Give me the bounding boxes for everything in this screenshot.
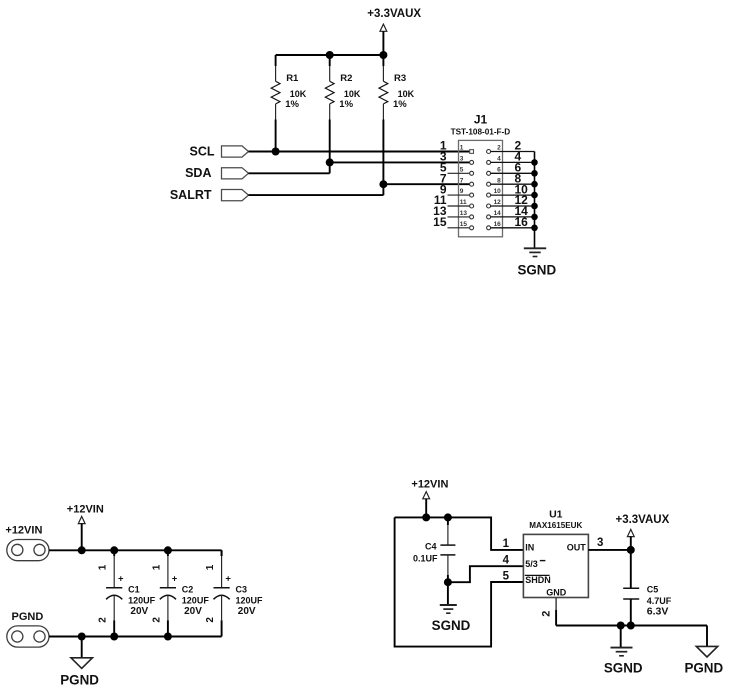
junction dot (R1/SCL) <box>272 148 280 156</box>
junction dot (bus) <box>531 214 538 221</box>
wire SDA net to J1 pin 3 <box>330 161 470 163</box>
svg-text:R1: R1 <box>286 73 299 84</box>
wire: ground bus <box>534 152 536 249</box>
J1 pin 15 <box>433 215 473 230</box>
connector +12VIN (2-pad) <box>5 524 49 560</box>
svg-text:1: 1 <box>205 564 216 570</box>
ground PGND (bottom-left) <box>60 637 99 688</box>
J1 pin 3 <box>440 150 474 165</box>
svg-text:PGND: PGND <box>684 661 723 676</box>
svg-text:16: 16 <box>494 221 502 228</box>
power +12VIN (bottom-left) <box>67 503 104 550</box>
J1 pin 4 <box>487 150 535 165</box>
svg-text:1: 1 <box>151 564 162 570</box>
svg-text:+: + <box>118 574 124 585</box>
svg-text:U1: U1 <box>549 508 563 520</box>
capacitor C1 <box>98 550 156 636</box>
svg-text:10K: 10K <box>290 89 307 99</box>
wire: R1 bottom to SCL net <box>275 120 277 152</box>
svg-text:13: 13 <box>460 210 468 217</box>
svg-text:11: 11 <box>460 199 467 206</box>
junction dot (SALRT/pin7) <box>379 180 387 188</box>
svg-text:SGND: SGND <box>604 661 643 676</box>
junction dot (SDA/pin3) <box>326 158 334 166</box>
connector PGND (2-pad) <box>7 611 49 647</box>
svg-text:1%: 1% <box>285 99 299 110</box>
svg-text:+12VIN: +12VIN <box>5 524 42 536</box>
svg-text:0.1UF: 0.1UF <box>413 554 438 564</box>
junction dot (C1 bottom) <box>110 633 118 641</box>
junction dot (bus) <box>531 170 538 177</box>
op-amp / IC U1 MAX1615EUK <box>523 508 588 597</box>
svg-text:1%: 1% <box>393 99 407 110</box>
svg-text:1: 1 <box>503 538 510 550</box>
J1 pin 6 <box>487 161 535 176</box>
svg-text:+3.3VAUX: +3.3VAUX <box>367 8 421 20</box>
svg-text:10K: 10K <box>398 89 415 99</box>
wire: bottom ground rail <box>556 625 707 627</box>
svg-text:6.3V: 6.3V <box>647 606 669 618</box>
svg-text:SDA: SDA <box>185 166 211 180</box>
capacitor C4 0.1UF <box>413 517 455 582</box>
svg-text:+: + <box>225 574 231 585</box>
svg-text:9: 9 <box>460 188 464 195</box>
junction dot (C4 bottom) <box>444 578 452 586</box>
svg-text:C2: C2 <box>182 585 194 595</box>
wire: C3 top corner drop <box>221 550 223 556</box>
svg-text:SHDN: SHDN <box>525 575 551 585</box>
svg-text:+3.3VAUX: +3.3VAUX <box>615 514 669 526</box>
svg-text:1%: 1% <box>339 99 353 110</box>
svg-text:J1: J1 <box>474 112 488 126</box>
J1 pin 9 <box>440 182 474 197</box>
svg-text:6: 6 <box>497 166 501 173</box>
wire: GND (pin 2) stem <box>540 598 556 626</box>
J1 pin 5 <box>440 161 474 176</box>
capacitor C2 <box>151 550 209 636</box>
wire: R2 bottom to SDA net <box>329 120 331 174</box>
J1 pin 10 <box>487 182 535 197</box>
svg-text:1: 1 <box>460 145 464 152</box>
svg-text:SGND: SGND <box>432 618 471 633</box>
capacitor C5 4.7UF 6.3V <box>623 550 672 626</box>
svg-text:10: 10 <box>494 188 502 195</box>
wire: +3.3VAUX rail <box>276 54 384 56</box>
junction dot (arrow) <box>78 546 86 554</box>
junction dot (bus) <box>531 159 538 166</box>
svg-text:C4: C4 <box>425 542 437 552</box>
svg-text:C1: C1 <box>128 585 140 595</box>
J1 pin 1 <box>440 139 474 154</box>
junction dot (C2 top) <box>164 546 172 554</box>
wire: +12VIN rail to pin 1 loop top <box>395 517 524 550</box>
svg-text:TST-108-01-F-D: TST-108-01-F-D <box>451 127 511 136</box>
power +3.3VAUX (top) <box>367 8 421 55</box>
junction dot (C4 top) <box>444 513 452 521</box>
svg-text:+12VIN: +12VIN <box>411 478 448 490</box>
capacitor C3 <box>205 550 263 636</box>
svg-text:5: 5 <box>503 570 510 582</box>
svg-text:OUT: OUT <box>567 543 587 553</box>
resistor R3 10K 1% <box>379 55 415 120</box>
svg-text:5/3: 5/3 <box>525 559 538 569</box>
junction dot (C2 bottom) <box>164 633 172 641</box>
svg-text:2: 2 <box>98 617 109 623</box>
resistor R1 10K 1% <box>271 55 307 120</box>
junction dot (R3 top) <box>379 51 387 59</box>
svg-text:PGND: PGND <box>60 673 99 688</box>
J1 pin 8 <box>487 171 535 186</box>
wire: C4 bottom to SGND <box>447 582 449 605</box>
svg-text:C5: C5 <box>647 584 659 594</box>
svg-text:120UF: 120UF <box>236 595 264 605</box>
wire: SHDN loop (pin 5) <box>395 517 524 646</box>
junction dot (OUT node) <box>627 546 635 554</box>
connector flag SALRT <box>222 190 249 201</box>
svg-text:3: 3 <box>597 537 603 549</box>
connector flag SDA <box>222 168 249 179</box>
svg-text:16: 16 <box>515 215 529 229</box>
svg-text:3: 3 <box>460 156 464 163</box>
svg-text:15: 15 <box>460 221 468 228</box>
svg-text:R3: R3 <box>394 73 406 84</box>
J1 pin 2 <box>487 139 535 154</box>
svg-text:2: 2 <box>497 145 501 152</box>
junction dot (R2 top) <box>326 51 334 59</box>
svg-text:14: 14 <box>494 210 502 217</box>
svg-text:+: + <box>172 574 178 585</box>
junction dot (bus) <box>531 225 538 232</box>
connector J1 TST-108-01-F-D <box>451 112 511 236</box>
svg-text:10K: 10K <box>344 89 361 99</box>
connector flag SCL <box>222 146 249 157</box>
svg-text:5: 5 <box>460 166 464 173</box>
svg-text:SGND: SGND <box>517 262 556 277</box>
svg-text:4: 4 <box>503 555 510 567</box>
power +12VIN (bottom-right) <box>411 478 448 517</box>
svg-text:20V: 20V <box>184 606 202 617</box>
svg-text:PGND: PGND <box>12 611 44 623</box>
svg-text:15: 15 <box>433 215 447 229</box>
svg-text:IN: IN <box>525 543 534 553</box>
wire: +12VIN top rail <box>49 549 222 551</box>
svg-text:20V: 20V <box>130 606 148 617</box>
ground SGND (J1) <box>517 248 556 277</box>
power +3.3VAUX (output) <box>615 514 669 550</box>
svg-text:120UF: 120UF <box>182 595 210 605</box>
junction dot (bus) <box>531 181 538 188</box>
junction dot (arrow) <box>422 513 430 521</box>
svg-text:MAX1615EUK: MAX1615EUK <box>529 521 582 530</box>
wire SCL to J1 pin 1 <box>249 151 470 153</box>
junction dot (C5 bottom) <box>627 622 635 630</box>
ground SGND (output) <box>604 626 643 676</box>
svg-text:SCL: SCL <box>190 144 215 158</box>
svg-text:2: 2 <box>205 617 216 623</box>
J1 pin 13 <box>433 204 473 219</box>
wire: R3 bottom to SALRT net <box>382 120 384 196</box>
wire SALRT to R3 vertical <box>249 194 384 196</box>
svg-text:20V: 20V <box>238 606 256 617</box>
ground PGND (output) <box>684 626 723 676</box>
svg-text:SALRT: SALRT <box>170 188 212 202</box>
J1 pin 16 <box>487 215 535 230</box>
svg-text:2: 2 <box>540 611 552 617</box>
resistor R2 10K 1% <box>325 55 361 120</box>
svg-text:12: 12 <box>494 199 502 206</box>
junction dot (bus) <box>531 192 538 199</box>
svg-text:4: 4 <box>497 156 501 163</box>
junction dot (bus) <box>531 203 538 210</box>
wire: pin 4 to C4 bottom <box>448 566 524 582</box>
junction dot (SGND stem) <box>617 622 625 630</box>
svg-text:2: 2 <box>151 617 162 623</box>
ground SGND (C4) <box>432 605 471 633</box>
wire: OUT (pin 3) <box>588 549 630 551</box>
svg-text:+12VIN: +12VIN <box>67 503 104 515</box>
svg-text:120UF: 120UF <box>128 595 156 605</box>
J1 pin 11 <box>434 193 474 208</box>
wire SDA to R2 vertical <box>249 172 330 174</box>
svg-text:4.7UF: 4.7UF <box>647 596 672 606</box>
junction dot (PGND stem) <box>78 633 86 641</box>
wire SALRT net to J1 pin 7 <box>383 183 469 185</box>
svg-text:C3: C3 <box>236 585 248 595</box>
junction dot (C1 top) <box>110 546 118 554</box>
J1 pin 14 <box>487 204 535 219</box>
svg-text:8: 8 <box>497 177 501 184</box>
J1 pin 12 <box>487 193 535 208</box>
J1 pin 7 <box>440 171 474 186</box>
wire: bottom PGND rail <box>49 636 222 638</box>
svg-text:1: 1 <box>98 564 109 570</box>
svg-text:GND: GND <box>546 587 567 597</box>
svg-text:R2: R2 <box>340 73 352 84</box>
svg-text:7: 7 <box>460 177 464 184</box>
